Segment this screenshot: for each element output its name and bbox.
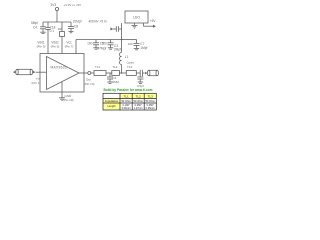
svg-text:Cpad: Cpad: [127, 60, 135, 64]
svg-text:1.27mm: 1.27mm: [134, 107, 143, 110]
svg-text:2Mpf: 2Mpf: [113, 80, 120, 84]
svg-text:Out: Out: [86, 78, 91, 82]
svg-text:(Pin 14): (Pin 14): [84, 82, 95, 86]
svg-text:TL2: TL2: [136, 94, 142, 98]
svg-text:+3.3V or +5V: +3.3V or +5V: [64, 3, 82, 7]
svg-text:3V3: 3V3: [51, 3, 57, 7]
svg-text:LDO: LDO: [133, 15, 140, 19]
svg-text:MAX9632: MAX9632: [51, 66, 68, 70]
svg-text:+5V: +5V: [150, 19, 157, 23]
svg-text:TL1: TL1: [95, 65, 101, 69]
svg-text:(Pin 10): (Pin 10): [63, 98, 74, 102]
svg-text:TL3: TL3: [148, 94, 154, 98]
svg-text:C4: C4: [33, 26, 37, 30]
svg-text:+In: +In: [35, 77, 40, 81]
svg-text:L1: L1: [125, 55, 129, 59]
svg-text:5Mpf: 5Mpf: [31, 21, 38, 25]
svg-text:(Pin 3): (Pin 3): [37, 45, 46, 49]
svg-text:GND: GND: [65, 94, 73, 98]
svg-text:Build by Passive for www.ti.co: Build by Passive for www.ti.com: [104, 88, 153, 92]
svg-text:0.1: 0.1: [50, 29, 55, 33]
svg-text:100: 100: [102, 42, 108, 46]
svg-text:Impedance: Impedance: [105, 99, 119, 103]
svg-text:(Pin 6): (Pin 6): [51, 45, 60, 49]
svg-text:R2: R2: [58, 27, 62, 31]
svg-text:50 Ohm: 50 Ohm: [121, 99, 131, 103]
svg-text:100: 100: [87, 42, 93, 46]
svg-text:1Mpf: 1Mpf: [140, 46, 147, 50]
svg-text:TL2: TL2: [112, 65, 118, 69]
svg-text:C8: C8: [74, 24, 78, 28]
svg-text:2Mpf: 2Mpf: [114, 48, 121, 52]
svg-text:6.35mm: 6.35mm: [146, 107, 155, 110]
svg-text:TL1: TL1: [124, 94, 130, 98]
svg-text:50 Ohm: 50 Ohm: [133, 99, 143, 103]
svg-text:(Pin 1): (Pin 1): [32, 81, 41, 85]
svg-text:47Mpf: 47Mpf: [97, 46, 106, 50]
svg-text:400mV +5 In: 400mV +5 In: [89, 20, 107, 24]
svg-text:100: 100: [128, 42, 133, 46]
svg-text:2.54mm: 2.54mm: [122, 107, 131, 110]
svg-text:Length: Length: [107, 104, 116, 108]
svg-text:(Pin 7): (Pin 7): [65, 45, 74, 49]
svg-text:10Mpf: 10Mpf: [73, 20, 82, 24]
svg-text:50 Ohm: 50 Ohm: [145, 99, 155, 103]
svg-text:TL3: TL3: [127, 65, 133, 69]
